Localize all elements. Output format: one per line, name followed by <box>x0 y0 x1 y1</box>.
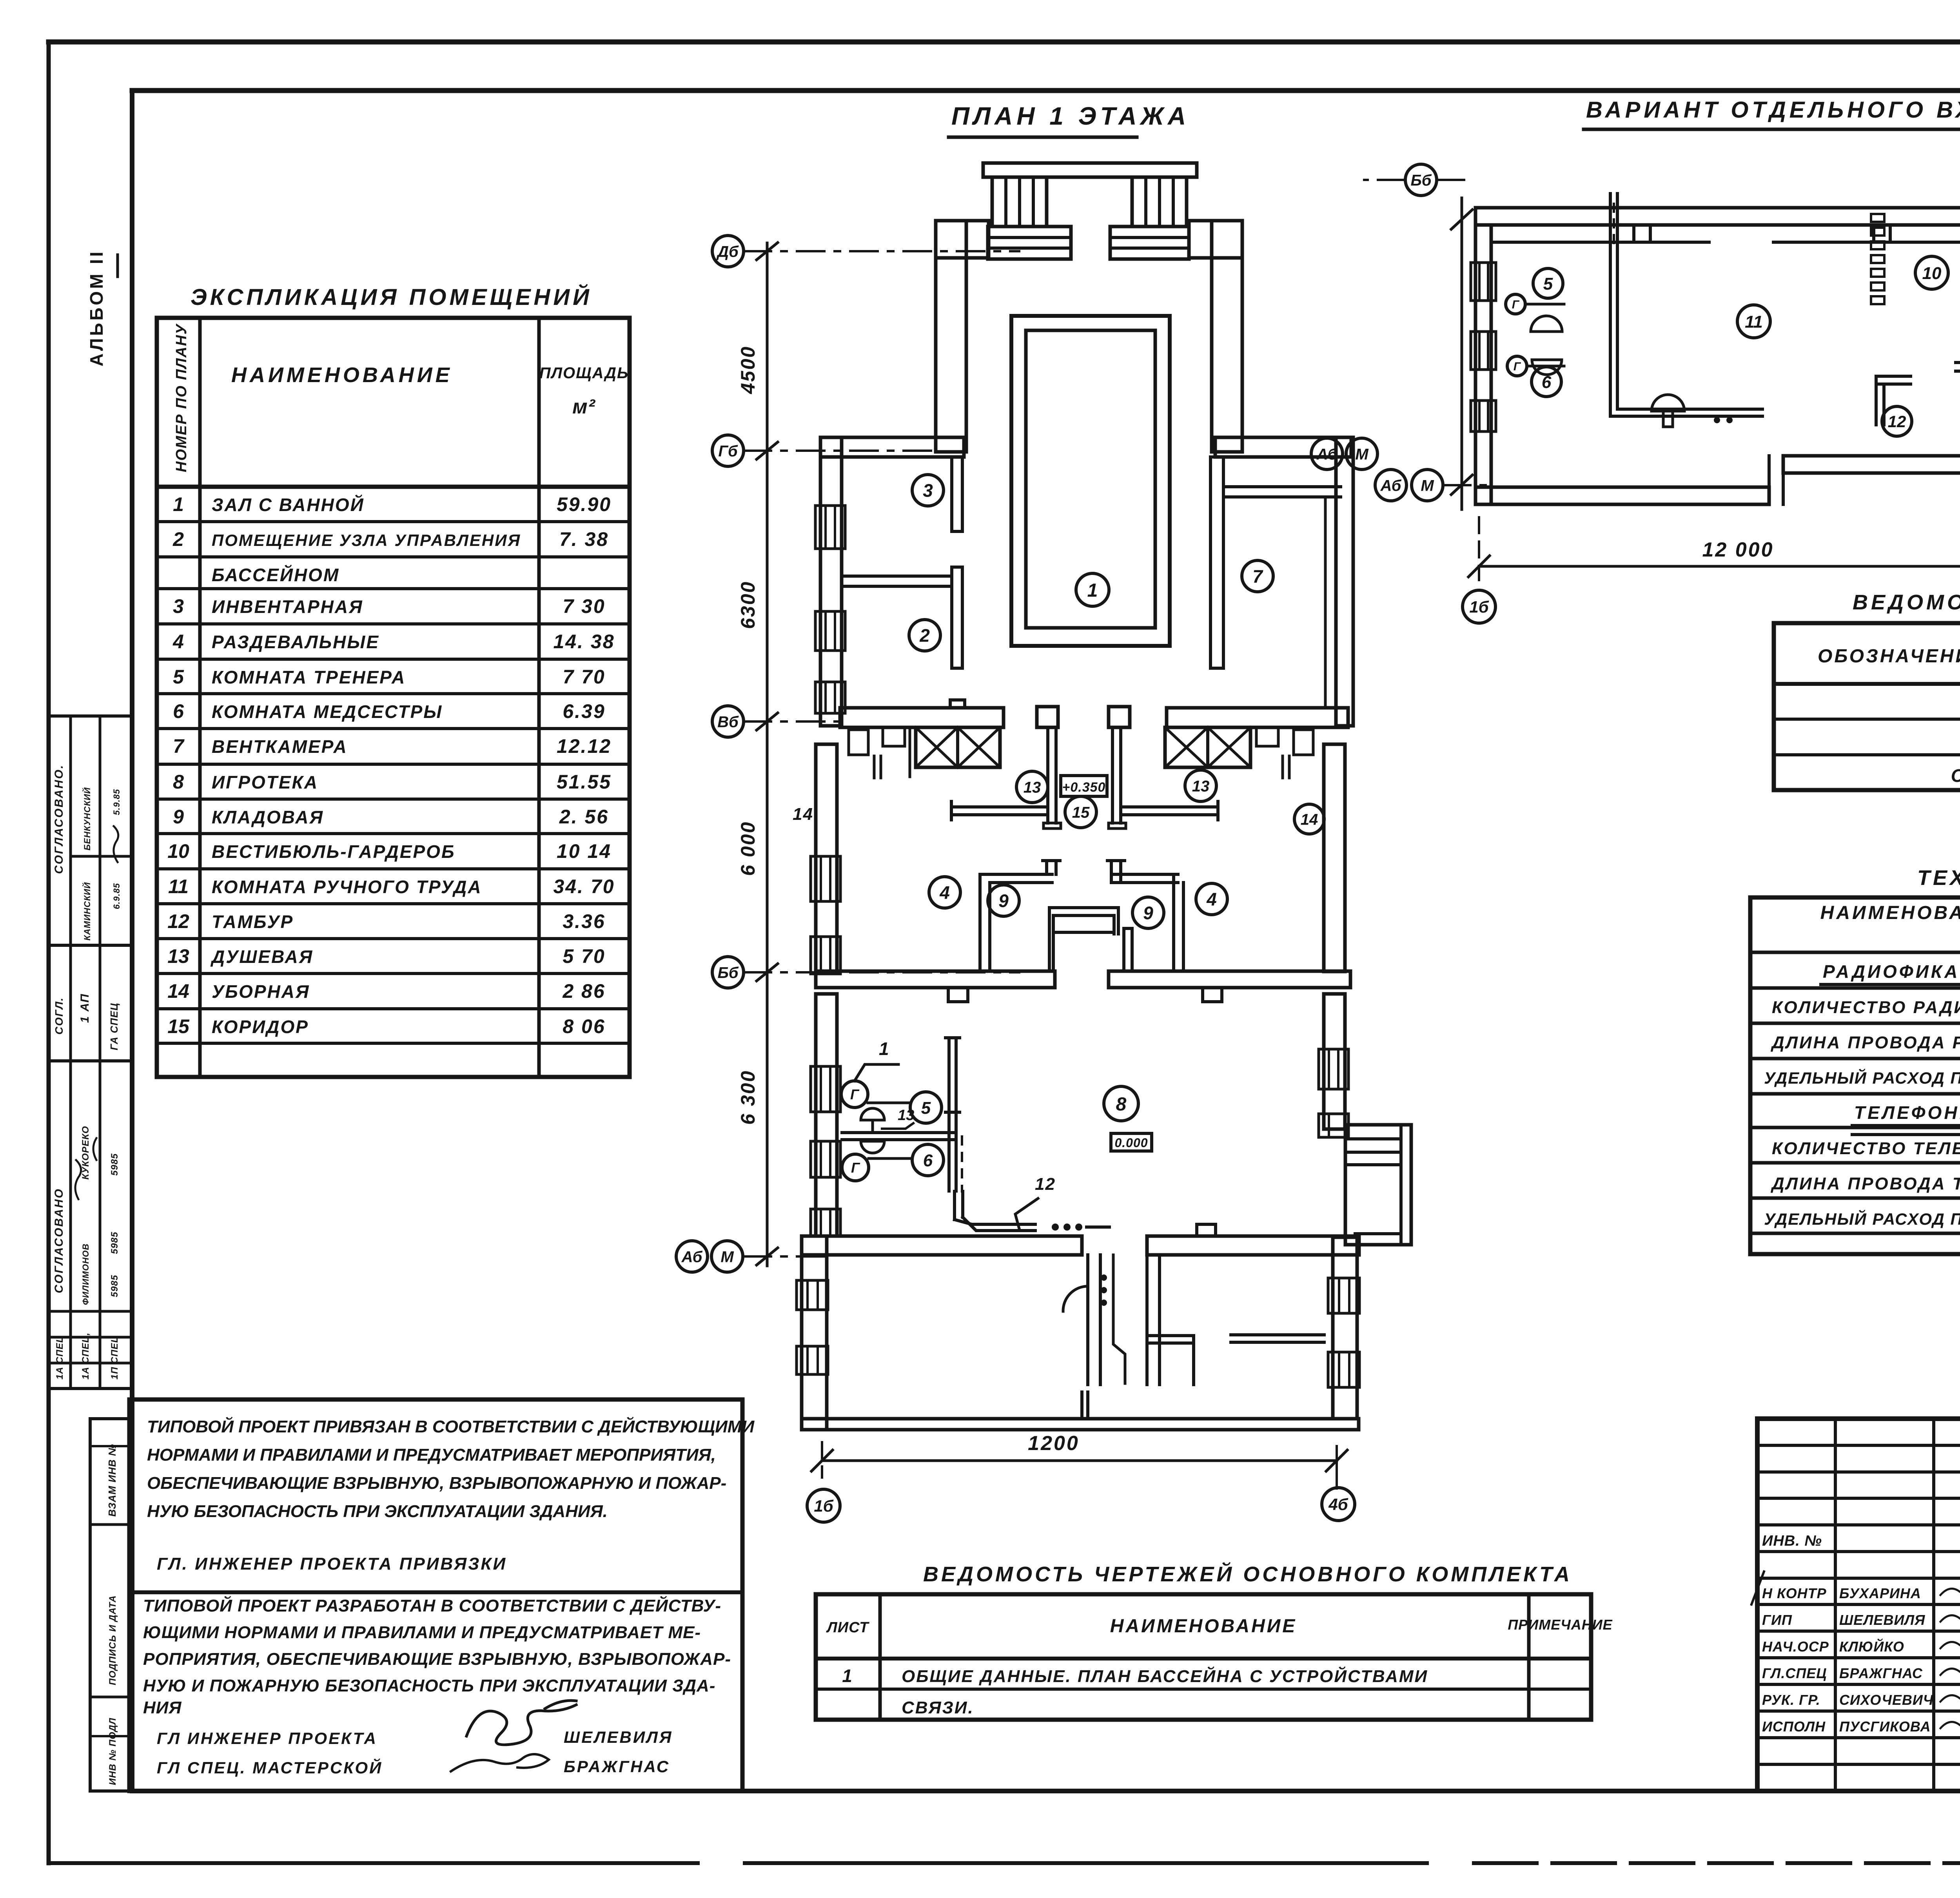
riser dots bottom wing <box>1101 1274 1107 1281</box>
svg-text:НАИМЕНОВАНИЕ: НАИМЕНОВАНИЕ <box>231 363 453 387</box>
east window W9 <box>1319 1049 1348 1089</box>
pool inner rim <box>1026 330 1155 628</box>
portico right colonnade <box>1132 177 1187 227</box>
svg-text:15: 15 <box>167 1015 190 1037</box>
svg-text:ТИПОВОЙ ПРОЕКТ РАЗРАБОТАН В С: ТИПОВОЙ ПРОЕКТ РАЗРАБОТАН В СООТВЕТСТВИИ… <box>143 1595 721 1615</box>
svg-text:ПРИМЕЧАНИЕ: ПРИМЕЧАНИЕ <box>1508 1617 1612 1633</box>
svg-text:5: 5 <box>921 1099 931 1118</box>
variant west wall <box>1475 225 1491 504</box>
svg-text:13: 13 <box>1024 779 1041 796</box>
wing stub B2 <box>1231 1333 1324 1336</box>
svg-text:ВАРИАНТ ОТДЕЛЬНОГО ВХОДА В БА: ВАРИАНТ ОТДЕЛЬНОГО ВХОДА В БАССЕЙН <box>1586 97 1960 123</box>
window W1 left wing <box>815 506 845 549</box>
svg-text:Аб: Аб <box>1316 446 1338 463</box>
Аб spine wall right <box>1147 1236 1359 1255</box>
svg-text:3: 3 <box>923 480 933 501</box>
wing stub C <box>1080 1392 1083 1417</box>
svg-text:БРАЖГНАС: БРАЖГНАС <box>564 1757 670 1776</box>
ref docs table <box>1774 623 1960 790</box>
crossed box right <box>1165 727 1250 767</box>
svg-text:ВЕДОМОСТЬ ССЫЛОЧНЫХ И ПРИЛАГАЕ: ВЕДОМОСТЬ ССЫЛОЧНЫХ И ПРИЛАГАЕМЫХ ДОКУМЕ… <box>1853 591 1960 614</box>
svg-text:Аб: Аб <box>1380 477 1402 494</box>
east wall Бб-Аб <box>1324 994 1345 1129</box>
room 8 label <box>1104 1086 1138 1121</box>
svg-text:10: 10 <box>1922 264 1942 283</box>
svg-text:6.39: 6.39 <box>563 700 605 722</box>
svg-text:ПЛАН 1 ЭТАЖА: ПЛАН 1 ЭТАЖА <box>951 102 1190 130</box>
label 14 circle right <box>1294 804 1324 834</box>
drawings list table <box>816 1594 1591 1720</box>
variant window V2 <box>1471 332 1496 370</box>
svg-text:2. 56: 2. 56 <box>559 806 609 828</box>
svg-text:НАИМЕНОВАНИЕ: НАИМЕНОВАНИЕ <box>1110 1616 1297 1637</box>
Бб wall pilasters <box>948 988 968 1002</box>
svg-text:Н КОНТР: Н КОНТР <box>1762 1585 1827 1601</box>
svg-text:ПУСГИКОВА: ПУСГИКОВА <box>1839 1719 1931 1735</box>
variant south wall left <box>1475 487 1769 504</box>
bottom wing west wall <box>802 1236 827 1430</box>
east window W14 <box>1328 1352 1359 1387</box>
svg-text:ТЕХНИКО-ЭКОНОМИЧЕСКИЕ ПОКАЗАТЕ: ТЕХНИКО-ЭКОНОМИЧЕСКИЕ ПОКАЗАТЕЛИ <box>1917 866 1960 890</box>
svg-text:5.9.85: 5.9.85 <box>112 789 122 815</box>
svg-text:КЛЮЙКО: КЛЮЙКО <box>1839 1638 1904 1655</box>
svg-text:6 000: 6 000 <box>737 821 759 876</box>
svg-text:СВЯЗИ.: СВЯЗИ. <box>902 1698 974 1717</box>
washbasin B <box>861 1141 884 1153</box>
variant window V1 <box>1471 263 1496 301</box>
sidebar approval table C <box>49 1061 132 1389</box>
svg-text:НИЯ: НИЯ <box>143 1698 182 1717</box>
variant south wall step <box>1768 456 1771 504</box>
svg-text:10 14: 10 14 <box>557 840 612 862</box>
svg-text:СОГЛАСОВАНО: СОГЛАСОВАНО <box>53 1188 65 1293</box>
svg-text:6: 6 <box>1542 373 1552 392</box>
sidebar approval table B <box>49 945 132 1061</box>
svg-text:1А СПЕЦ: 1А СПЕЦ <box>54 1336 65 1380</box>
room 4 label <box>929 877 960 908</box>
elevation mark 0.000 <box>1111 1133 1152 1151</box>
svg-text:КОМНАТА ТРЕНЕРА: КОМНАТА ТРЕНЕРА <box>212 667 406 687</box>
svg-text:КУКОРЕКО: КУКОРЕКО <box>80 1126 91 1180</box>
svg-text:КОЛИЧЕСТВО ТЕЛЕФОНОВ: КОЛИЧЕСТВО ТЕЛЕФОНОВ <box>1772 1139 1960 1158</box>
svg-text:7: 7 <box>173 735 185 757</box>
svg-text:БАССЕЙНОМ: БАССЕЙНОМ <box>212 565 339 585</box>
hall right exterior wall <box>1212 221 1242 452</box>
svg-text:4: 4 <box>172 631 184 653</box>
svg-text:4: 4 <box>939 883 950 903</box>
svg-text:6300: 6300 <box>737 581 759 629</box>
svg-text:51.55: 51.55 <box>557 771 612 793</box>
Вб wall left part <box>840 708 1004 727</box>
svg-text:4б: 4б <box>1328 1495 1348 1514</box>
svg-text:1А СПЕЦ,: 1А СПЕЦ, <box>80 1332 91 1380</box>
room 9 label right <box>1132 897 1164 928</box>
svg-text:БРАЖГНАС: БРАЖГНАС <box>1839 1665 1923 1681</box>
svg-text:КЛАДОВАЯ: КЛАДОВАЯ <box>212 807 324 827</box>
svg-text:5 70: 5 70 <box>563 945 605 967</box>
stamp left grid <box>1757 1444 1960 1447</box>
svg-text:НОРМАМИ И ПРАВИЛАМИ И ПРЕДУСМА: НОРМАМИ И ПРАВИЛАМИ И ПРЕДУСМАТРИВАЕТ МЕ… <box>147 1445 716 1465</box>
svg-text:Гб: Гб <box>718 442 738 460</box>
svg-text:5: 5 <box>1543 274 1553 294</box>
svg-text:ИНВ. №: ИНВ. № <box>1762 1533 1822 1549</box>
svg-text:14: 14 <box>1301 811 1318 828</box>
sidebar approval table A <box>49 716 132 945</box>
room 9 right enclosure <box>1110 861 1113 883</box>
svg-text:ВЕДОМОСТЬ ЧЕРТЕЖЕЙ ОСНОВНОГО К: ВЕДОМОСТЬ ЧЕРТЕЖЕЙ ОСНОВНОГО КОМПЛЕКТА <box>923 1562 1572 1586</box>
window W6 <box>811 1066 840 1112</box>
svg-text:РАЗДЕВАЛЬНЫЕ: РАЗДЕВАЛЬНЫЕ <box>212 632 379 652</box>
room 6 label <box>912 1144 944 1176</box>
variant washbasin A <box>1531 316 1562 332</box>
window W8 <box>811 1209 840 1236</box>
axis circle 4б bottom <box>1322 1488 1355 1521</box>
svg-text:7: 7 <box>1252 566 1263 587</box>
axis circle Бб top right <box>1405 164 1437 196</box>
variant axis Бб <box>1437 179 1466 181</box>
svg-text:+0.350: +0.350 <box>1062 780 1106 795</box>
elevation mark +0.350 <box>1061 776 1107 796</box>
label 13 left <box>1016 771 1048 803</box>
bottom wing south wall <box>802 1419 1359 1430</box>
svg-text:11: 11 <box>168 876 189 897</box>
window W3 left wing <box>815 682 845 713</box>
svg-text:1П СПЕЦ: 1П СПЕЦ <box>109 1336 120 1380</box>
label 13 right <box>1185 770 1216 801</box>
sidebar strip (взам/подпись/инв) <box>90 1419 129 1791</box>
svg-text:М: М <box>1421 477 1434 494</box>
svg-text:ГЛ СПЕЦ. МАСТЕРСКОЙ: ГЛ СПЕЦ. МАСТЕРСКОЙ <box>157 1758 383 1777</box>
center column B <box>1109 707 1130 727</box>
east window W10 <box>1319 1114 1348 1137</box>
corridor 15 walls <box>951 805 1048 809</box>
room 3 east wall upper <box>952 457 962 531</box>
svg-text:11: 11 <box>1745 312 1763 332</box>
svg-text:7 30: 7 30 <box>563 595 605 617</box>
svg-text:НАИМЕНОВАНИЕ ПОКАЗАТЕЛЯ: НАИМЕНОВАНИЕ ПОКАЗАТЕЛЯ <box>1820 903 1960 923</box>
washbasin A <box>861 1108 884 1120</box>
window W2 left wing <box>815 611 845 651</box>
svg-text:НАЧ.ОСР: НАЧ.ОСР <box>1762 1639 1829 1655</box>
svg-text:ОБЕСПЕЧИВАЮЩИЕ ВЗРЫВНУЮ, ВЗРЫВ: ОБЕСПЕЧИВАЮЩИЕ ВЗРЫВНУЮ, ВЗРЫВОПОЖАРНУЮ … <box>147 1474 726 1493</box>
svg-text:АЛЬБОМ II: АЛЬБОМ II <box>86 249 107 366</box>
room 3 label <box>912 475 944 506</box>
svg-text:Вб: Вб <box>717 713 739 731</box>
axis datum lines <box>744 250 1019 252</box>
svg-text:13: 13 <box>1192 778 1210 795</box>
room 2 label <box>909 620 940 651</box>
variant north inner ledge left <box>1494 241 1709 244</box>
room 7 inner top double line <box>1223 485 1341 488</box>
svg-text:ШЕЛЕВИЛЯ: ШЕЛЕВИЛЯ <box>564 1728 673 1746</box>
svg-text:М: М <box>720 1248 734 1265</box>
svg-text:8 06: 8 06 <box>563 1015 605 1037</box>
svg-text:ПОДПИСЬ И ДАТА: ПОДПИСЬ И ДАТА <box>107 1595 118 1685</box>
notes text block <box>129 1399 742 1791</box>
room 7 west wall <box>1210 457 1223 668</box>
svg-text:БЕНКУНСКИЙ: БЕНКУНСКИЙ <box>82 787 92 850</box>
svg-text:СОГЛАСОВАНО.: СОГЛАСОВАНО. <box>53 764 65 874</box>
svg-text:РОПРИЯТИЯ, ОБЕСПЕЧИВАЮЩИЕ ВЗР: РОПРИЯТИЯ, ОБЕСПЕЧИВАЮЩИЕ ВЗРЫВНУЮ, ВЗРЫ… <box>143 1650 731 1669</box>
crossed box left <box>916 727 1000 767</box>
variant room12 partition <box>1876 375 1911 378</box>
svg-text:УДЕЛЬНЫЙ РАСХОД ПРОВОДА НА 1 А: УДЕЛЬНЫЙ РАСХОД ПРОВОДА НА 1 АБОНЕНТА <box>1764 1209 1960 1228</box>
variant outer north wall <box>1475 208 1960 225</box>
svg-text:ДЛИНА ПРОВОДА ТЕЛЕФОНИЗАЦИИ: ДЛИНА ПРОВОДА ТЕЛЕФОНИЗАЦИИ <box>1770 1174 1960 1193</box>
svg-text:КОРИДОР: КОРИДОР <box>212 1017 309 1037</box>
axis circle 1б bottom <box>807 1489 840 1522</box>
svg-text:ОБЩИЕ ДАННЫЕ. ПЛАН БАССЕЙНА С: ОБЩИЕ ДАННЫЕ. ПЛАН БАССЕЙНА С УСТРОЙСТВА… <box>902 1666 1428 1686</box>
svg-text:Г: Г <box>1512 298 1520 311</box>
svg-text:ПОМЕЩЕНИЕ УЗЛА УПРАВЛЕНИЯ: ПОМЕЩЕНИЕ УЗЛА УПРАВЛЕНИЯ <box>212 531 521 549</box>
left wing top wall <box>820 437 964 457</box>
variant axis 1б <box>1463 590 1495 623</box>
svg-text:НУЮ БЕЗОПАСНОСТЬ ПРИ ЭКСПЛУАТА: НУЮ БЕЗОПАСНОСТЬ ПРИ ЭКСПЛУАТАЦИИ ЗДАНИЯ… <box>147 1502 608 1521</box>
svg-text:Г: Г <box>1514 360 1521 373</box>
svg-text:5985: 5985 <box>109 1232 120 1254</box>
room 3 east wall lower <box>952 567 962 668</box>
svg-text:12 000: 12 000 <box>1702 538 1774 561</box>
svg-text:ГИП: ГИП <box>1762 1612 1792 1628</box>
wing partition B <box>1145 1255 1149 1385</box>
svg-text:ТЕЛЕФОНИЗАЦИЯ: ТЕЛЕФОНИЗАЦИЯ <box>1854 1102 1960 1123</box>
svg-text:ГЛ.СПЕЦ: ГЛ.СПЕЦ <box>1762 1665 1827 1681</box>
г circle lower <box>842 1154 869 1181</box>
Аб spine wall left <box>802 1236 1082 1255</box>
svg-text:1 АП: 1 АП <box>78 993 91 1023</box>
г circle upper <box>841 1081 868 1108</box>
svg-text:1б: 1б <box>814 1497 833 1515</box>
vertical dimension line <box>766 243 769 1266</box>
signature small <box>451 1754 549 1771</box>
svg-text:1: 1 <box>173 493 184 515</box>
hall top-right wall <box>1189 221 1242 258</box>
svg-text:3: 3 <box>173 595 184 617</box>
outer page border <box>49 40 1960 45</box>
variant dimension <box>1479 565 1960 568</box>
variant conduit <box>1610 352 1762 416</box>
svg-text:1200: 1200 <box>1028 1432 1080 1455</box>
svg-text:14: 14 <box>793 805 813 824</box>
svg-text:ВЕСТИБЮЛЬ-ГАРДЕРОБ: ВЕСТИБЮЛЬ-ГАРДЕРОБ <box>212 841 456 862</box>
stamp outline <box>1757 1419 1960 1791</box>
room 7 label <box>1242 560 1273 592</box>
svg-text:СОГЛ.: СОГЛ. <box>53 997 65 1035</box>
tep table <box>1750 897 1960 1254</box>
svg-text:0.000: 0.000 <box>1114 1136 1148 1150</box>
svg-text:Г: Г <box>851 1160 860 1176</box>
svg-text:ГЛ. ИНЖЕНЕР ПРОЕКТА ПРИВЯЗКИ: ГЛ. ИНЖЕНЕР ПРОЕКТА ПРИВЯЗКИ <box>157 1554 507 1574</box>
svg-text:КАМИНСКИЙ: КАМИНСКИЙ <box>82 882 92 941</box>
svg-text:10: 10 <box>167 840 189 862</box>
svg-text:2: 2 <box>172 528 184 550</box>
svg-text:СУ 20: СУ 20 <box>1951 765 1960 786</box>
svg-text:1: 1 <box>842 1666 854 1686</box>
svg-text:2: 2 <box>919 625 930 646</box>
variant north inner ledge right <box>1773 241 1960 244</box>
right shower stalls <box>1256 727 1278 746</box>
svg-text:12.12: 12.12 <box>557 735 612 757</box>
left wing west wall <box>820 437 842 726</box>
svg-text:ИГРОТЕКА: ИГРОТЕКА <box>212 772 318 792</box>
svg-text:ОБОЗНАЧЕНИЕ: ОБОЗНАЧЕНИЕ <box>1818 646 1960 667</box>
portico top slab <box>983 163 1197 177</box>
riser shaft <box>947 1039 951 1191</box>
portico left steps <box>988 227 1071 259</box>
bottom wing east wall <box>1333 1237 1357 1419</box>
svg-text:59.90: 59.90 <box>557 493 612 515</box>
svg-text:9: 9 <box>173 806 184 828</box>
svg-text:5985: 5985 <box>109 1153 120 1176</box>
svg-text:М: М <box>1355 446 1369 463</box>
svg-text:Г: Г <box>850 1086 860 1102</box>
svg-text:УДЕЛЬНЫЙ РАСХОД ПРОВОДА НА 1РА: УДЕЛЬНЫЙ РАСХОД ПРОВОДА НА 1РАДИОТОЧК <box>1764 1068 1960 1087</box>
svg-text:5: 5 <box>173 666 184 688</box>
svg-text:ИНВЕНТАРНАЯ: ИНВЕНТАРНАЯ <box>212 596 363 617</box>
svg-text:ИСПОЛН: ИСПОЛН <box>1762 1719 1826 1735</box>
svg-text:ВЗАМ ИНВ №: ВЗАМ ИНВ № <box>106 1444 118 1517</box>
svg-text:СИХОЧЕВИЧ: СИХОЧЕВИЧ <box>1839 1692 1934 1708</box>
svg-text:Дб: Дб <box>716 243 739 260</box>
window W4 <box>811 856 840 901</box>
variant room labels <box>1533 268 1563 298</box>
svg-text:ТАМБУР: ТАМБУР <box>212 912 294 932</box>
east window W13 <box>1328 1278 1359 1313</box>
svg-text:6: 6 <box>923 1151 933 1170</box>
svg-text:Аб: Аб <box>681 1248 703 1265</box>
svg-text:3.36: 3.36 <box>563 910 605 932</box>
variant ladder dotted <box>1871 214 1884 222</box>
room 5 label <box>910 1092 942 1123</box>
stamp slash <box>1751 1572 1764 1604</box>
svg-text:УБОРНАЯ: УБОРНАЯ <box>212 981 310 1002</box>
svg-text:ПЛОЩАДЬ: ПЛОЩАДЬ <box>539 364 629 382</box>
svg-text:9: 9 <box>998 891 1009 911</box>
svg-text:ЭКСПЛИКАЦИЯ ПОМЕЩЕНИЙ: ЭКСПЛИКАЦИЯ ПОМЕЩЕНИЙ <box>191 284 592 310</box>
variant partition stub right <box>1956 361 1960 364</box>
svg-text:ЗАЛ С ВАННОЙ: ЗАЛ С ВАННОЙ <box>212 495 365 515</box>
window W7 <box>811 1141 840 1177</box>
west wall Вб-Бб <box>816 744 837 972</box>
svg-text:1: 1 <box>879 1039 889 1059</box>
room 1 label <box>1076 573 1109 606</box>
axis circles left column <box>712 236 744 267</box>
partition rooms 3/2 <box>842 576 952 586</box>
svg-text:6 300: 6 300 <box>737 1070 759 1125</box>
variant window V3 <box>1471 401 1496 431</box>
window W12 <box>797 1346 828 1374</box>
svg-text:ДЛИНА ПРОВОДА РАДИОФИКАЦИИ: ДЛИНА ПРОВОДА РАДИОФИКАЦИИ <box>1770 1033 1960 1052</box>
pool outer rim <box>1011 316 1170 646</box>
svg-text:13: 13 <box>167 945 189 967</box>
bottom dimension line <box>822 1459 1337 1462</box>
hall top-left wall <box>936 221 989 258</box>
wing partition A <box>1086 1255 1089 1385</box>
variant axis Аб М <box>1375 470 1406 501</box>
room 4 label right <box>1196 883 1227 915</box>
center column A <box>1037 707 1058 727</box>
svg-text:1б: 1б <box>1469 598 1489 616</box>
variant partition wall <box>1609 194 1612 352</box>
window W11 <box>797 1280 828 1310</box>
explication table grid <box>157 318 630 1077</box>
svg-text:4: 4 <box>1206 889 1217 910</box>
portico right steps <box>1110 227 1189 259</box>
svg-text:6: 6 <box>173 700 184 722</box>
center vestibule <box>1048 908 1051 971</box>
wing stub B1 <box>1150 1334 1194 1337</box>
room 9 left enclosure <box>978 874 982 971</box>
svg-text:7. 38: 7. 38 <box>559 528 609 550</box>
svg-text:Бб: Бб <box>717 964 739 981</box>
hall left exterior wall <box>936 221 966 452</box>
svg-text:ГЛ ИНЖЕНЕР ПРОЕКТА: ГЛ ИНЖЕНЕР ПРОЕКТА <box>157 1729 377 1748</box>
svg-text:12: 12 <box>1888 412 1906 431</box>
svg-text:Бб: Бб <box>1410 172 1432 189</box>
window W5 <box>811 937 840 974</box>
svg-text:ЮЩИМИ НОРМАМИ И ПРАВИЛАМИ: ЮЩИМИ НОРМАМИ И ПРАВИЛАМИ И ПРЕДУСМАТРИВ… <box>143 1623 701 1642</box>
svg-text:9: 9 <box>1143 903 1153 923</box>
left shower stalls <box>849 730 868 755</box>
signature big <box>466 1705 576 1745</box>
svg-text:ФИЛИМОНОВ: ФИЛИМОНОВ <box>81 1244 91 1305</box>
svg-text:12: 12 <box>1035 1175 1056 1194</box>
svg-text:6.9.85: 6.9.85 <box>112 883 122 909</box>
Вб wall right part <box>1167 708 1348 727</box>
svg-text:ЛИСТ: ЛИСТ <box>826 1619 869 1636</box>
svg-text:КОЛИЧЕСТВО РАДИОТОЧЕК: КОЛИЧЕСТВО РАДИОТОЧЕК <box>1772 998 1960 1017</box>
svg-text:1: 1 <box>1087 580 1098 601</box>
svg-text:м²: м² <box>572 395 596 418</box>
room 9 label left <box>988 885 1019 916</box>
right wing east wall <box>1336 437 1353 726</box>
Бб wall right part <box>1109 971 1350 988</box>
svg-text:8: 8 <box>1116 1094 1127 1115</box>
svg-text:ТИПОВОЙ ПРОЕКТ ПРИВЯЗАН В СООТ: ТИПОВОЙ ПРОЕКТ ПРИВЯЗАН В СООТВЕТСТВИИ С… <box>147 1416 755 1436</box>
svg-text:14. 38: 14. 38 <box>553 631 615 653</box>
variant sink pedestal <box>1651 395 1684 411</box>
svg-text:ШЕЛЕВИЛЯ: ШЕЛЕВИЛЯ <box>1839 1612 1925 1628</box>
svg-text:14: 14 <box>167 980 189 1002</box>
svg-text:12: 12 <box>167 910 189 932</box>
conduit path <box>953 1191 956 1220</box>
svg-text:РУК. ГР.: РУК. ГР. <box>1762 1692 1820 1708</box>
portico left colonnade <box>992 177 1047 227</box>
svg-text:РАДИОФИКАЦИЯ: РАДИОФИКАЦИЯ <box>1823 961 1960 982</box>
west wall Бб-Аб <box>816 994 837 1236</box>
svg-text:НОМЕР ПО ПЛАНУ: НОМЕР ПО ПЛАНУ <box>173 323 190 472</box>
label 15 <box>1065 796 1096 828</box>
partition rooms 5/6 <box>842 1131 956 1134</box>
east wall Вб-Бб <box>1324 744 1345 972</box>
svg-text:34. 70: 34. 70 <box>553 876 615 897</box>
svg-text:2 86: 2 86 <box>562 980 605 1002</box>
svg-text:13: 13 <box>898 1107 914 1124</box>
variant south wall right <box>1783 456 1960 473</box>
door arc <box>1063 1286 1088 1311</box>
svg-text:ИНВ № ПОДЛ: ИНВ № ПОДЛ <box>107 1718 118 1785</box>
variant washbasin B <box>1532 360 1562 375</box>
svg-text:КОМНАТА РУЧНОГО ТРУДА: КОМНАТА РУЧНОГО ТРУДА <box>212 877 482 897</box>
svg-text:7 70: 7 70 <box>563 666 605 688</box>
svg-text:4500: 4500 <box>737 346 759 394</box>
axis circles Аб М right <box>1311 438 1343 470</box>
svg-text:ВЕНТКАМЕРА: ВЕНТКАМЕРА <box>212 736 348 757</box>
svg-text:КОМНАТА МЕДСЕСТРЫ: КОМНАТА МЕДСЕСТРЫ <box>212 702 443 722</box>
svg-text:15: 15 <box>1072 804 1090 821</box>
svg-text:ДУШЕВАЯ: ДУШЕВАЯ <box>210 946 313 967</box>
drawing frame <box>132 88 1960 93</box>
